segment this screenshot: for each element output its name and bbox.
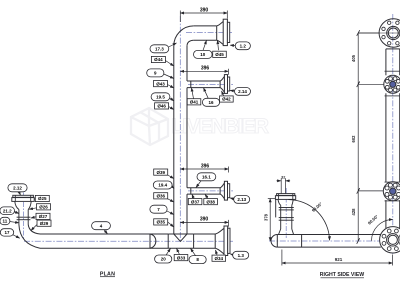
svg-text:Ø29: Ø29 — [40, 221, 49, 226]
watermark logo cube — [131, 108, 168, 145]
PLAN title — [100, 271, 115, 277]
angle arc 90 deg valve — [288, 200, 329, 241]
svg-text:Ø26: Ø26 — [39, 205, 48, 210]
svg-text:19.4: 19.4 — [158, 183, 167, 188]
valve hub trapezoid (plan) — [15, 201, 31, 209]
top flange face circle — [379, 19, 400, 47]
bell reducer branch2 — [220, 76, 224, 92]
bell reducer bottom run — [215, 228, 224, 254]
svg-text:Ø41: Ø41 — [190, 100, 199, 105]
valve flange stack (right view) — [275, 194, 295, 200]
callout B40 — [155, 103, 174, 110]
svg-text:921: 921 — [335, 257, 343, 262]
svg-text:2.12: 2.12 — [13, 185, 22, 190]
svg-text:20: 20 — [161, 257, 167, 262]
valve hub (right view) — [278, 199, 293, 205]
valve joint pairs (right view) — [279, 208, 294, 221]
flange F1 top run — [223, 19, 227, 45]
svg-text:10: 10 — [200, 52, 206, 57]
angle arc 90 deg column — [371, 220, 392, 241]
callout 8 — [189, 248, 206, 263]
svg-text:378: 378 — [263, 213, 268, 221]
callout 16 — [202, 88, 219, 107]
svg-text:Ø25: Ø25 — [38, 196, 47, 201]
callout B29 — [31, 220, 51, 230]
dimension 396 branch3 — [180, 167, 228, 173]
svg-text:1.2: 1.2 — [240, 43, 247, 48]
vertical column pipe (right view) — [386, 49, 400, 228]
dimension chain 405/602/428 — [357, 30, 384, 244]
svg-text:21.2: 21.2 — [3, 208, 12, 213]
svg-text:19.5: 19.5 — [156, 94, 165, 99]
elbow bottom-left (plan) — [19, 225, 40, 249]
bottom flange face circle — [380, 227, 400, 253]
mid flange bolts — [385, 77, 400, 92]
svg-text:Ø46: Ø46 — [157, 104, 166, 109]
svg-text:11: 11 — [3, 219, 8, 224]
centerline bottom run (plan) — [24, 240, 233, 242]
svg-text:Ø34: Ø34 — [215, 256, 224, 261]
svg-text:Ø43: Ø43 — [156, 81, 165, 86]
branch3 pipe (plan) — [187, 188, 220, 194]
svg-text:390: 390 — [200, 7, 209, 13]
svg-text:17.3: 17.3 — [155, 46, 164, 51]
dimension 32 — [277, 178, 291, 195]
top flange bolt holes — [382, 21, 400, 45]
svg-text:Ø33: Ø33 — [177, 255, 186, 260]
svg-text:Ø44: Ø44 — [154, 57, 163, 62]
dimension 378 — [268, 199, 275, 242]
elbow top (plan) — [174, 26, 194, 46]
svg-text:Ø35: Ø35 — [156, 220, 165, 225]
callout B34 — [212, 250, 226, 261]
centerline valve (right view) — [285, 188, 287, 238]
callout B36 — [154, 193, 174, 202]
dimension 921 — [282, 250, 393, 266]
callout B33 — [174, 248, 188, 260]
callout 10 — [194, 40, 213, 58]
callout B42 — [220, 91, 234, 102]
svg-text:LIVENBIER: LIVENBIER — [171, 115, 270, 138]
svg-text:RIGHT SIDE VIEW: RIGHT SIDE VIEW — [320, 272, 364, 278]
bell reducer branch3 — [220, 183, 224, 199]
centerline vertical column (right view) — [392, 14, 394, 254]
valve flange bolt ticks (plan) — [15, 195, 30, 201]
svg-text:Ø39: Ø39 — [156, 170, 165, 175]
callout 2.13 — [230, 196, 250, 204]
centerline horizontal pipe (right view) — [269, 240, 400, 242]
callout 4 — [92, 222, 111, 234]
callout B39 — [154, 169, 174, 179]
svg-text:390: 390 — [200, 217, 209, 223]
callout B44 — [151, 56, 173, 66]
bottom flange bolt holes — [382, 229, 400, 250]
svg-text:Ø37: Ø37 — [191, 199, 200, 204]
callout B27 — [31, 213, 50, 219]
vertical pipe (plan) — [174, 46, 187, 234]
svg-text:16.1: 16.1 — [202, 174, 211, 179]
svg-text:396: 396 — [201, 163, 210, 169]
bottom run pipe right segment (plan) — [194, 234, 216, 248]
callout 17.3 — [150, 43, 177, 53]
callout B25 — [34, 195, 49, 201]
valve joint pair (plan) — [17, 217, 31, 220]
bottom run pipe left segment (plan) — [40, 234, 168, 248]
centerline branch3 (plan) — [188, 190, 233, 192]
svg-text:2.14: 2.14 — [238, 89, 247, 94]
callout 2.14 — [230, 88, 251, 96]
valve flange stack top (plan) — [12, 195, 34, 201]
svg-text:Ø27: Ø27 — [39, 214, 48, 219]
svg-text:2.13: 2.13 — [237, 197, 246, 202]
dimension 390 bottom — [180, 220, 228, 227]
centerline top run (plan) — [186, 32, 232, 34]
centerline valve vertical (plan) — [23, 193, 25, 240]
valve body profile line (right view) — [275, 199, 277, 217]
RIGHT SIDE VIEW title — [320, 272, 364, 278]
centerline branch2 (plan) — [188, 83, 233, 85]
svg-text:Ø38: Ø38 — [206, 199, 215, 204]
svg-text:396: 396 — [201, 66, 210, 72]
flange back line top — [386, 48, 400, 50]
flange F4 bottom run — [224, 226, 228, 256]
callout 1.3 — [230, 251, 248, 259]
svg-text:405: 405 — [351, 54, 356, 62]
bell coupling joint (plan) — [150, 234, 156, 248]
callout B26 — [29, 204, 50, 210]
callout B43 — [154, 81, 174, 89]
svg-text:Ø42: Ø42 — [222, 97, 231, 102]
tee body (plan) — [168, 234, 193, 248]
callout 9 — [147, 69, 174, 79]
dimension 390 top — [180, 11, 227, 23]
top flange crosshair — [358, 32, 400, 34]
callout 21.2 — [0, 207, 19, 215]
callout B45 — [213, 40, 227, 57]
callout B37 — [188, 194, 202, 204]
pipe joint weld (right view) — [301, 235, 303, 248]
valve pipe vertical (plan) — [19, 210, 28, 225]
svg-text:32: 32 — [281, 176, 285, 180]
valve flange bolt ticks (right view) — [279, 194, 293, 200]
callout 16.1 — [196, 173, 216, 188]
callout 1.2 — [230, 42, 250, 50]
svg-text:Ø45: Ø45 — [215, 52, 224, 57]
svg-text:Ø36: Ø36 — [156, 194, 165, 199]
svg-text:17: 17 — [4, 230, 10, 235]
centerline vertical main pipe (plan) — [179, 16, 181, 242]
valve outlet flare (right view) — [279, 229, 294, 235]
svg-text:602: 602 — [351, 135, 356, 143]
svg-text:16: 16 — [208, 100, 214, 105]
callout B38 — [204, 194, 218, 204]
callout B35 — [154, 219, 174, 227]
bell reducer top run — [217, 22, 224, 45]
flange F2 branch2 — [224, 75, 227, 94]
lower flange bolts — [385, 183, 400, 199]
callout 2.12 — [8, 184, 27, 195]
valve pipe (right view) — [281, 205, 292, 229]
lower flange pair circle — [383, 182, 400, 201]
svg-text:1.3: 1.3 — [238, 253, 245, 258]
callout 17 — [0, 229, 19, 239]
callout 7 — [150, 205, 174, 214]
callout B41 — [187, 88, 201, 105]
tee weld V (plan) — [174, 234, 187, 241]
svg-text:428: 428 — [351, 208, 356, 216]
callout 19.4 — [153, 181, 174, 189]
callout 11 — [0, 217, 19, 224]
top run pipe (plan) — [194, 26, 217, 40]
pipe end cap (right view) — [271, 235, 277, 248]
branch2 pipe (plan) — [187, 81, 220, 88]
horizontal pipe (right view) — [277, 235, 381, 248]
callout 19.5 — [151, 93, 174, 101]
flange F3 branch3 — [224, 181, 227, 200]
callout 20 — [155, 248, 172, 263]
mid flange pair circle — [384, 71, 400, 96]
dimension 396 branch2 — [180, 69, 228, 75]
